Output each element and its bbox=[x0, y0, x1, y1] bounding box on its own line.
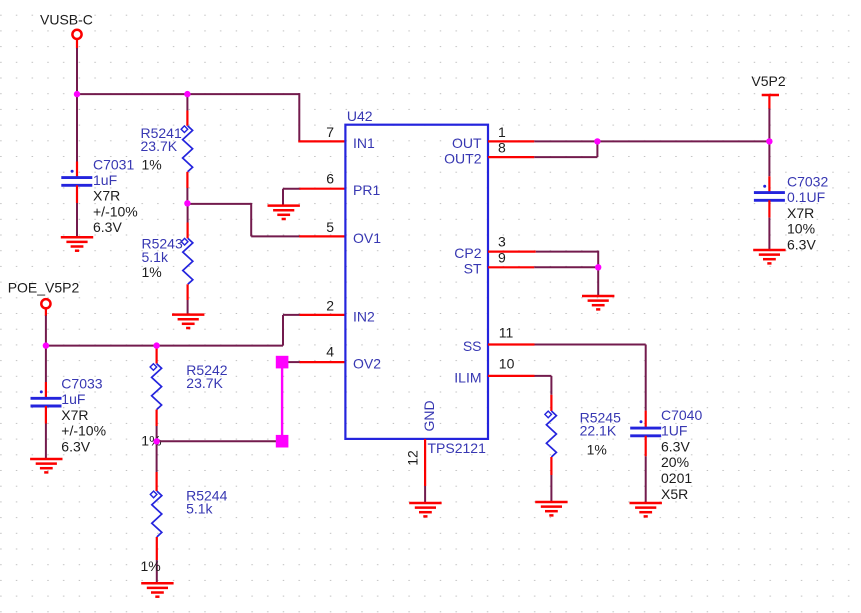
op-amp U1 body - IC U42 TPS2121 outline bbox=[345, 125, 488, 439]
wire pin 2 stub IN2 bbox=[300, 314, 346, 316]
node junction R5241 top bbox=[184, 91, 190, 97]
node junction OUT/OUT2 bbox=[594, 138, 600, 144]
svg-text:+/-10%: +/-10% bbox=[61, 423, 106, 439]
wire C7031 to ground bbox=[76, 203, 78, 237]
node square junction OV2 upper bbox=[276, 356, 289, 369]
wire ST to ground bbox=[597, 267, 599, 296]
ground R5243 bbox=[172, 315, 204, 328]
ground CP2/ST bbox=[582, 296, 614, 309]
wire OV1 vertical bbox=[250, 203, 252, 237]
svg-text:CP2: CP2 bbox=[454, 245, 481, 261]
svg-text:6.3V: 6.3V bbox=[61, 438, 90, 454]
svg-text:11: 11 bbox=[499, 324, 514, 340]
wire ILIM horizontal bbox=[535, 375, 552, 377]
wire R5243 bottom lead bbox=[187, 284, 189, 300]
svg-text:1%: 1% bbox=[587, 442, 607, 458]
svg-text:C7040: C7040 bbox=[661, 407, 702, 423]
wire R5244 bottom lead bbox=[156, 537, 158, 560]
wire R5241 bottom lead bbox=[186, 172, 188, 188]
wire pin 10 stub ILIM bbox=[488, 375, 535, 377]
wire PR1 horizontal bbox=[283, 188, 301, 190]
wire pin 4 stub OV2 bbox=[300, 361, 346, 363]
node junction POE/C7033 bbox=[43, 342, 49, 348]
wire V5P2 stub bbox=[768, 95, 770, 109]
svg-text:1%: 1% bbox=[142, 156, 162, 172]
wire POE to C7033 bbox=[45, 346, 47, 382]
resistor R5245 bbox=[545, 411, 557, 457]
wire POE vertical bbox=[45, 316, 47, 346]
node square junction OV2 lower bbox=[276, 435, 289, 448]
wire SS vertical bbox=[645, 345, 647, 411]
wire pin 3 stub CP2 bbox=[488, 251, 536, 253]
wire pin 12 stub GND bbox=[424, 439, 426, 486]
wire top horizontal run bbox=[77, 93, 299, 95]
wire GND pin to ground bbox=[424, 486, 426, 503]
svg-text:3: 3 bbox=[498, 234, 506, 250]
wire magenta vertical bbox=[281, 368, 283, 436]
svg-text:X7R: X7R bbox=[61, 407, 88, 423]
wire POE port stub bbox=[45, 308, 47, 316]
wire SS horizontal bbox=[535, 344, 646, 346]
svg-text:OUT2: OUT2 bbox=[444, 151, 482, 167]
svg-text:IN1: IN1 bbox=[353, 135, 375, 151]
svg-text:6.3V: 6.3V bbox=[661, 438, 690, 454]
wire R5244 top bbox=[156, 441, 158, 472]
resistor R5241 bbox=[181, 126, 193, 172]
wire R5242 top lead bbox=[156, 346, 158, 364]
wire R5245 to ground bbox=[550, 475, 552, 502]
svg-text:X7R: X7R bbox=[787, 205, 814, 221]
wire ST horizontal bbox=[534, 266, 598, 268]
wire C7031 bottom lead bbox=[76, 185, 78, 203]
svg-text:5: 5 bbox=[326, 219, 334, 235]
port VUSB-C bbox=[72, 30, 81, 39]
capacitor C7033 bbox=[31, 390, 62, 406]
svg-text:5.1k: 5.1k bbox=[186, 501, 213, 517]
wire pin 6 stub PR1 bbox=[300, 188, 346, 190]
svg-text:1: 1 bbox=[498, 124, 506, 140]
wire C7032 top lead bbox=[768, 176, 770, 193]
ground C7033 bbox=[30, 459, 62, 472]
wire R5244 to ground bbox=[156, 560, 158, 583]
wire OUT horizontal bbox=[534, 140, 769, 142]
wire R5241 top bbox=[186, 94, 188, 110]
node junction R5241/R5243/OV1 bbox=[184, 200, 190, 206]
wire C7032 to ground bbox=[768, 218, 770, 250]
node junction R5242 top bbox=[153, 342, 159, 348]
svg-text:2: 2 bbox=[326, 298, 334, 314]
svg-text:U42: U42 bbox=[347, 108, 373, 124]
wire V5P2 to C7032 bbox=[768, 141, 770, 176]
wire R5243 to ground bbox=[187, 300, 189, 315]
wire C7031 top lead bbox=[76, 162, 78, 179]
capacitor C7031 bbox=[61, 170, 92, 186]
svg-text:TPS2121: TPS2121 bbox=[428, 440, 487, 456]
resistor R5242 bbox=[150, 364, 162, 410]
svg-text:C7031: C7031 bbox=[93, 156, 134, 172]
wire R5242 bottom lead bbox=[156, 410, 158, 426]
svg-text:23.7K: 23.7K bbox=[141, 138, 178, 154]
svg-text:6: 6 bbox=[326, 170, 334, 186]
wire R5245 top lead bbox=[550, 395, 552, 411]
wire ILIM vertical bbox=[550, 376, 552, 395]
svg-text:OUT: OUT bbox=[452, 135, 482, 151]
svg-text:X7R: X7R bbox=[93, 188, 120, 204]
wire PR1 vertical bbox=[282, 189, 284, 206]
wire V5P2 vertical bbox=[768, 109, 770, 142]
wire OV2 horizontal bbox=[288, 361, 301, 363]
svg-text:IN2: IN2 bbox=[353, 308, 375, 324]
ground R5245 bbox=[535, 502, 567, 515]
wire junction to C7031 bbox=[76, 94, 78, 161]
node junction R5242/R5244 bbox=[153, 438, 159, 444]
wire C7040 bottom lead bbox=[645, 436, 647, 457]
wire R5243 top lead bbox=[187, 223, 189, 239]
wire C7040 to ground bbox=[645, 456, 647, 503]
wire OV1 horizontal upper bbox=[187, 203, 251, 205]
wire C7033 to ground bbox=[45, 424, 47, 460]
wire junction to square bbox=[157, 440, 276, 442]
wire CP2 horizontal bbox=[536, 251, 598, 253]
svg-text:6.3V: 6.3V bbox=[787, 236, 816, 252]
wire R5241 top lead bbox=[186, 111, 188, 126]
svg-text:0201: 0201 bbox=[661, 470, 692, 486]
wire POE horizontal run bbox=[46, 345, 283, 347]
svg-text:10%: 10% bbox=[787, 221, 815, 237]
wire VUSB-C port stub bbox=[76, 39, 78, 49]
svg-text:7: 7 bbox=[326, 124, 334, 140]
svg-text:20%: 20% bbox=[661, 454, 689, 470]
svg-text:VUSB-C: VUSB-C bbox=[40, 11, 93, 27]
resistor R5244 bbox=[150, 491, 162, 537]
wire pin 1 stub OUT bbox=[488, 140, 534, 142]
wire OUT2 vertical bbox=[596, 140, 598, 157]
node junction CP2/ST bbox=[595, 264, 601, 270]
wire OUT2 horizontal bbox=[534, 156, 597, 158]
svg-text:1%: 1% bbox=[141, 558, 161, 574]
svg-text:1%: 1% bbox=[142, 264, 162, 280]
ground R5244 bbox=[141, 583, 173, 596]
svg-text:ST: ST bbox=[464, 261, 482, 277]
wire pin 8 stub OUT2 bbox=[488, 156, 534, 158]
wire C7040 top lead bbox=[645, 411, 647, 429]
svg-text:1uF: 1uF bbox=[93, 172, 117, 188]
svg-text:OV2: OV2 bbox=[353, 356, 381, 372]
ground PR1 bbox=[268, 206, 300, 219]
wire R5245 bottom lead bbox=[550, 457, 552, 475]
wire pin 11 stub SS bbox=[488, 343, 535, 345]
svg-text:GND: GND bbox=[421, 400, 437, 431]
wire R5244 top lead bbox=[156, 472, 158, 491]
wire pin 9 stub ST bbox=[488, 266, 534, 268]
svg-text:12: 12 bbox=[404, 450, 420, 466]
capacitor C7032 bbox=[754, 185, 785, 201]
wire down to IN1 bbox=[298, 93, 300, 141]
svg-text:23.7K: 23.7K bbox=[186, 375, 223, 391]
svg-text:6.3V: 6.3V bbox=[93, 219, 122, 235]
svg-text:C7032: C7032 bbox=[787, 174, 828, 190]
wire CP2 vertical bbox=[597, 251, 599, 268]
svg-text:+/-10%: +/-10% bbox=[93, 203, 138, 219]
svg-text:4: 4 bbox=[326, 344, 334, 360]
ground C7031 bbox=[61, 237, 93, 250]
wire R5243 top bbox=[187, 203, 189, 222]
svg-text:22.1K: 22.1K bbox=[580, 423, 617, 439]
wire VUSB-C vertical to junction bbox=[76, 48, 78, 94]
wire pin 7 stub IN1 bbox=[298, 140, 345, 142]
ground U42 pin 12 bbox=[409, 503, 441, 516]
node junction V5P2 bbox=[766, 138, 772, 144]
wire C7032 bottom lead bbox=[768, 200, 770, 217]
svg-text:10: 10 bbox=[499, 356, 515, 372]
resistor R5243 bbox=[181, 238, 193, 284]
wire R5241 bottom bbox=[186, 188, 188, 203]
wire C7033 bottom lead bbox=[45, 406, 47, 424]
svg-text:5.1k: 5.1k bbox=[142, 249, 169, 265]
svg-text:V5P2: V5P2 bbox=[751, 73, 785, 89]
port POE_V5P2 bbox=[41, 299, 50, 308]
svg-text:0.1UF: 0.1UF bbox=[787, 189, 825, 205]
svg-text:ILIM: ILIM bbox=[454, 369, 481, 385]
capacitor C7040 bbox=[630, 420, 661, 436]
ground C7040 bbox=[630, 503, 662, 516]
svg-text:1UF: 1UF bbox=[661, 423, 687, 439]
svg-text:PR1: PR1 bbox=[353, 182, 380, 198]
svg-text:1uF: 1uF bbox=[61, 391, 85, 407]
svg-text:X5R: X5R bbox=[661, 486, 688, 502]
wire C7033 top lead bbox=[45, 382, 47, 399]
wire up to IN2 bbox=[282, 315, 284, 346]
svg-text:SS: SS bbox=[463, 338, 482, 354]
svg-text:POE_V5P2: POE_V5P2 bbox=[8, 279, 80, 295]
wire OV1 horizontal lower bbox=[251, 235, 300, 237]
svg-text:C7033: C7033 bbox=[61, 376, 102, 392]
node junction VUSB-C / C7031 bbox=[74, 91, 80, 97]
ground C7032 bbox=[753, 250, 785, 263]
wire pin 5 stub OV1 bbox=[299, 235, 345, 237]
svg-text:OV1: OV1 bbox=[353, 230, 381, 246]
power symbol V5P2 bar bbox=[762, 94, 779, 97]
wire R5242 bottom bbox=[156, 426, 158, 441]
wire IN2 horizontal bbox=[283, 314, 301, 316]
